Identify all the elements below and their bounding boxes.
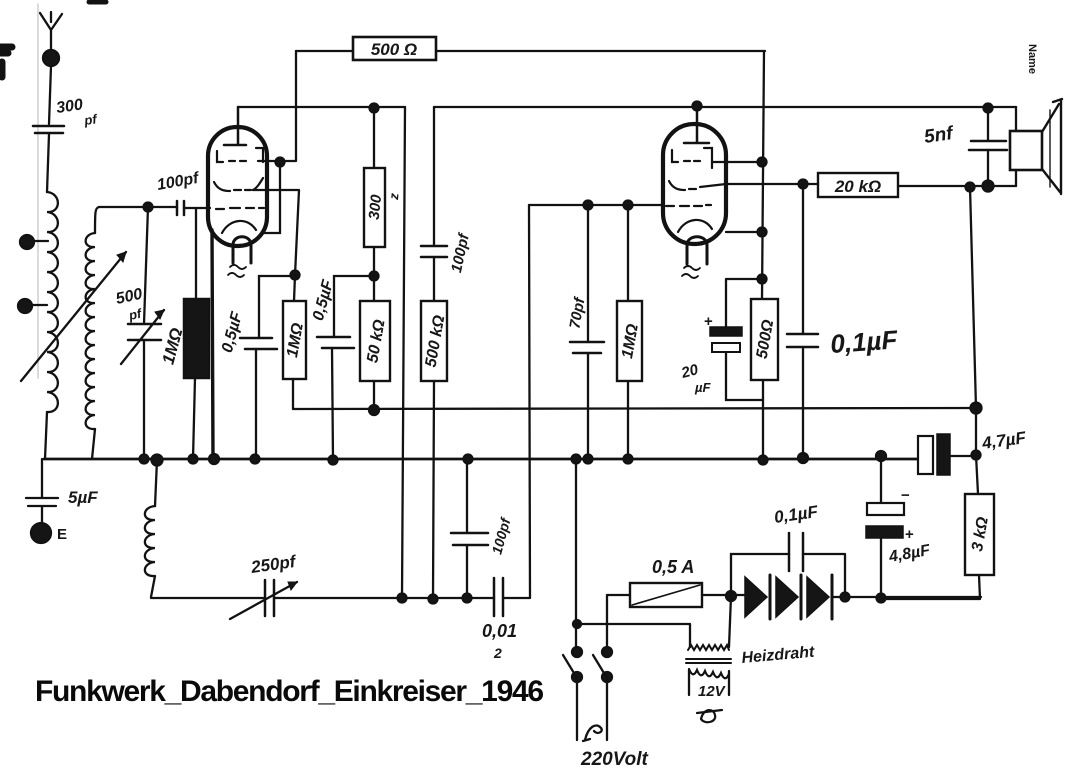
node spk1 — [966, 183, 975, 192]
transformer primary lead — [729, 596, 731, 647]
left edge marks — [0, 47, 12, 77]
capacitor 300pF — [33, 126, 64, 133]
variable capacitor 250pF — [265, 580, 274, 616]
svg-text:500 Ω: 500 Ω — [371, 40, 417, 59]
svg-text:0,01: 0,01 — [482, 621, 517, 641]
svg-text:E: E — [57, 526, 67, 543]
wire 50k to line410 — [373, 381, 375, 410]
top edge mark — [89, 0, 106, 5]
tap blob 1 — [20, 235, 34, 249]
wire 500k to line598 — [433, 381, 434, 599]
svg-text:220Volt: 220Volt — [580, 749, 649, 770]
cap 5nF — [969, 141, 1007, 150]
wire screen to 20k — [803, 183, 818, 185]
wire grid node to pot top — [195, 208, 197, 299]
wire 1M top — [294, 275, 295, 301]
electrolytic 4.5uF — [880, 456, 882, 598]
node 433 — [429, 595, 438, 604]
wire trimmer to bus — [143, 340, 145, 459]
wire 100pF to 598 — [466, 545, 468, 598]
rectifier out line — [832, 596, 981, 598]
wire antenna to C 300pF — [49, 66, 51, 124]
fuse wire — [607, 594, 630, 596]
tube V1 plate lead — [258, 160, 280, 162]
cap 0.5uF second — [317, 337, 354, 348]
tap lead 2 — [31, 304, 47, 306]
ground bus — [44, 458, 918, 461]
svg-text:5µF: 5µF — [68, 488, 98, 507]
resistor 3k box — [965, 494, 994, 575]
coil L2 tuning — [86, 233, 95, 429]
wire 0.5uF bottom to bus — [255, 349, 257, 459]
bus right segment — [950, 455, 976, 457]
svg-text:12V: 12V — [698, 683, 727, 700]
tube V2 squiggle — [682, 266, 700, 278]
node mid — [370, 272, 379, 281]
tube V2 plate lead — [712, 161, 762, 163]
diode D1 — [745, 577, 767, 617]
potentiometer 1M — [184, 299, 209, 378]
switch wires down — [577, 677, 607, 740]
cap 5uF — [26, 459, 58, 523]
node screen V2 — [799, 180, 808, 189]
node grid top — [144, 203, 153, 212]
node fuse out — [726, 591, 736, 601]
wires 1M2 — [627, 205, 629, 459]
speaker right vertical — [1015, 107, 1017, 186]
antenna blob — [43, 50, 59, 66]
coil L3 — [145, 460, 157, 597]
wire 970 down to 410 — [970, 187, 976, 408]
line 598 mid — [274, 597, 494, 599]
switch line left — [575, 459, 577, 652]
variable capacitor 500pF — [128, 324, 161, 340]
wire node down to trimmer — [144, 207, 148, 324]
wire plate to top line — [280, 51, 296, 161]
tube V1 screen — [214, 178, 263, 191]
tube V2 screen lead — [726, 183, 803, 185]
fuse out wire — [702, 594, 744, 596]
top line 500ohm — [296, 50, 765, 52]
wire 0.5b bottom to bus — [332, 348, 333, 460]
wire 300 to 50k — [373, 247, 375, 301]
node 881-598 — [877, 594, 886, 603]
capacitor 0.01 — [494, 578, 503, 616]
line y107 segment A — [238, 106, 405, 108]
cap 20uF electrolytic — [726, 279, 762, 327]
resistor 300 box — [364, 168, 385, 247]
wire L2 to bus — [92, 429, 95, 459]
node cathode V2 — [758, 228, 767, 237]
tube V2 envelope — [663, 124, 726, 244]
node 5nF bottom — [983, 181, 994, 192]
wire L2 top to grid node — [95, 207, 148, 233]
grid line V2 — [529, 204, 663, 206]
switch pole2 vertical — [606, 595, 608, 652]
svg-text:0,5 A: 0,5 A — [652, 557, 694, 577]
tube V2 screen — [669, 181, 726, 190]
wire 100pF to tube grid — [184, 207, 210, 209]
line 598 right + up to grid — [503, 205, 530, 598]
node 20uF — [758, 275, 767, 284]
cap 0.5uF first — [240, 338, 277, 349]
bus nodes — [140, 455, 149, 464]
wire 500ohm2 to bus — [762, 380, 764, 460]
node 5nF top — [984, 104, 993, 113]
speaker horn — [1042, 99, 1062, 194]
tap blob 2 — [18, 299, 32, 313]
capacitor 100pF grid — [177, 201, 184, 215]
tube V1 cathode arc — [222, 221, 256, 233]
svg-text:−: − — [901, 487, 910, 504]
coil L1 — [47, 192, 58, 412]
node V2 top — [693, 102, 702, 111]
wire 0.5b top — [334, 276, 374, 337]
tube V2 heater — [687, 237, 707, 264]
line speaker bottom — [898, 185, 1016, 187]
node 1M2 top — [624, 201, 633, 210]
secondary leads — [689, 670, 729, 695]
node 976-455 — [972, 451, 981, 460]
blob E — [31, 523, 51, 543]
transformer primary — [688, 645, 729, 650]
vertical 762 — [762, 51, 764, 299]
transformer core — [686, 659, 731, 663]
svg-text:0,1µF: 0,1µF — [829, 324, 899, 359]
svg-text:5nf: 5nf — [923, 123, 956, 148]
scan artifact line — [37, 4, 39, 378]
svg-text:Funkwerk_Dabendorf_Einkreiser_: Funkwerk_Dabendorf_Einkreiser_1946 — [35, 675, 543, 708]
svg-text:µF: µF — [694, 380, 711, 395]
node 624 — [573, 620, 581, 628]
tube V1 envelope — [208, 127, 267, 246]
cap 4.7uF — [918, 436, 933, 474]
tube V1 plate bracket — [217, 148, 263, 162]
fuse 0.5A box — [630, 583, 702, 607]
line 598 left — [151, 597, 263, 599]
node 467 — [463, 594, 472, 603]
node 410 — [369, 405, 379, 415]
tube V1 screen lead — [253, 190, 299, 275]
resistor 1M box — [283, 301, 306, 379]
node 976-408 — [971, 403, 982, 414]
svg-text:+: + — [905, 526, 914, 543]
wires 3k — [881, 455, 980, 599]
antenna — [40, 12, 62, 58]
wire 0.5uF top — [259, 276, 295, 338]
cap 0.1uF — [787, 334, 818, 347]
tube V1 top lead — [224, 107, 246, 145]
mains line — [577, 624, 690, 647]
cap 70pF — [570, 342, 604, 353]
svg-text:Name: Name — [1026, 44, 1038, 74]
tube V2 grid dashes — [666, 205, 711, 206]
diode D3 — [807, 577, 829, 617]
tube V1 heater — [233, 237, 251, 263]
tube V2 cathode arc — [678, 220, 712, 232]
fuse diagonal — [632, 585, 700, 605]
transformer secondary — [689, 669, 729, 678]
switch curl — [583, 725, 602, 741]
node screen — [291, 271, 300, 280]
tube V1 squiggle — [228, 265, 246, 277]
tube V2 cathode lead — [726, 231, 762, 233]
svg-text:20 kΩ: 20 kΩ — [834, 177, 881, 196]
wires 5nF — [987, 108, 989, 186]
tube V2 plate bracket — [672, 148, 712, 168]
speaker driver box — [1010, 131, 1042, 170]
wire node to 100pF — [148, 206, 177, 208]
switch contacts — [572, 647, 582, 657]
wire bus to 100pF — [466, 459, 468, 533]
svg-text:+: + — [704, 313, 713, 330]
vertical 405 — [402, 107, 405, 598]
wires 0.1uF — [802, 184, 804, 458]
tube V1 cathode lead — [212, 230, 213, 459]
node plate V2 — [758, 158, 767, 167]
tap lead 1 — [32, 240, 48, 242]
node plate V1 — [276, 158, 285, 167]
resistor 50k box — [360, 301, 390, 381]
cap 0.1uF ps loop — [731, 554, 845, 597]
wire 1M bottom corner — [292, 379, 294, 409]
wire C to coil L1 — [47, 134, 49, 192]
wire down to 300 — [373, 108, 375, 168]
tube V2 top lead — [684, 106, 709, 143]
tilde mark — [697, 710, 722, 722]
resistor 1M 2 box — [617, 301, 642, 381]
tuning arrow — [21, 252, 126, 381]
wire L1 to bus — [45, 412, 47, 459]
node 845 — [841, 593, 850, 602]
diode D2 — [776, 577, 798, 617]
node 300 top — [370, 104, 379, 113]
resistor 500 ohm 2 box — [751, 299, 778, 380]
node 402 — [398, 594, 407, 603]
cap 100pF anode — [421, 246, 447, 257]
svg-text:300: 300 — [366, 193, 386, 220]
line 410 — [293, 408, 976, 409]
wire 434 down — [433, 107, 435, 246]
switch arms — [563, 655, 607, 678]
resistor 20k box — [818, 173, 898, 197]
wire 70pF — [587, 205, 589, 459]
cap 100pF bus — [451, 533, 488, 545]
resistor 500 ohm box — [353, 37, 436, 60]
wire plate node down to cathode — [264, 162, 280, 233]
svg-text:2: 2 — [493, 645, 502, 661]
wire down to 455 — [975, 408, 977, 455]
line y107 segment B — [434, 106, 1016, 108]
wire pot to bus — [193, 378, 195, 459]
tube V1 grid dashes — [216, 208, 264, 209]
wire to 500k — [433, 257, 435, 301]
node 70pF top — [584, 201, 593, 210]
resistor 500k box — [421, 301, 447, 381]
